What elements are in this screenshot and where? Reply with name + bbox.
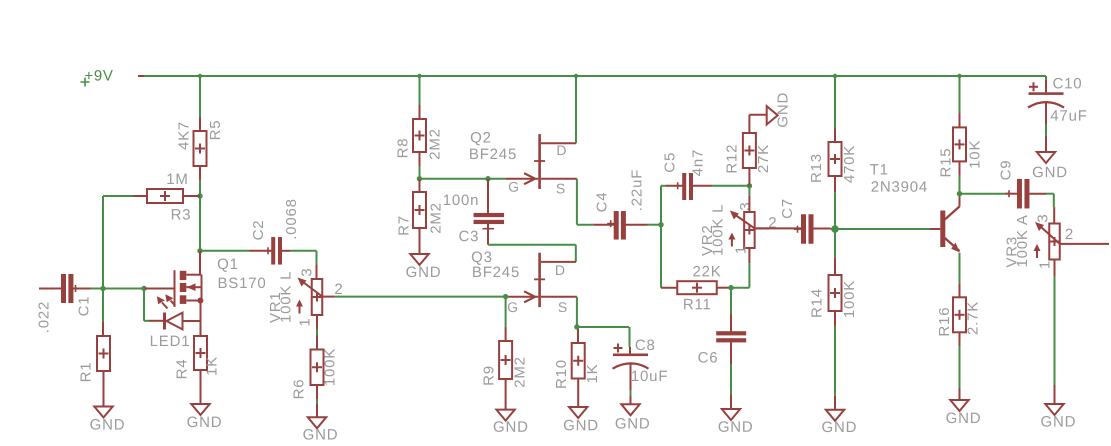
svg-text:1: 1 — [1037, 260, 1054, 269]
svg-text:100K: 100K — [841, 280, 858, 318]
svg-text:R14: R14 — [809, 288, 826, 318]
svg-text:C7: C7 — [779, 198, 796, 219]
svg-text:T1: T1 — [870, 161, 889, 178]
svg-text:GND: GND — [775, 92, 792, 128]
svg-text:10K: 10K — [967, 140, 984, 169]
svg-text:470K: 470K — [841, 145, 858, 183]
svg-text:R5: R5 — [207, 120, 224, 141]
svg-text:3: 3 — [299, 267, 316, 276]
svg-text:2M2: 2M2 — [427, 128, 444, 160]
svg-text:Q1: Q1 — [217, 256, 239, 273]
svg-text:GND: GND — [1032, 164, 1068, 181]
svg-text:S: S — [558, 299, 568, 315]
svg-text:GND: GND — [615, 415, 651, 432]
svg-text:3: 3 — [1034, 213, 1051, 222]
svg-text:2.7K: 2.7K — [964, 301, 981, 335]
svg-text:100K A: 100K A — [1014, 214, 1031, 267]
svg-text:GND: GND — [90, 416, 126, 433]
svg-text:GND: GND — [493, 419, 529, 436]
svg-text:GND: GND — [946, 410, 982, 427]
svg-text:S: S — [556, 180, 566, 196]
svg-text:10uF: 10uF — [631, 368, 668, 385]
svg-text:D: D — [556, 142, 567, 158]
svg-text:4K7: 4K7 — [176, 121, 193, 150]
svg-text:GND: GND — [1041, 413, 1077, 430]
svg-text:47uF: 47uF — [1050, 108, 1087, 125]
svg-text:BS170: BS170 — [217, 275, 266, 292]
svg-text:1K: 1K — [584, 364, 601, 384]
svg-text:R10: R10 — [553, 359, 570, 389]
svg-text:GND: GND — [187, 414, 223, 431]
svg-text:2M2: 2M2 — [512, 356, 529, 388]
svg-text:R16: R16 — [936, 307, 953, 337]
svg-text:2N3904: 2N3904 — [871, 179, 928, 196]
svg-text:.022: .022 — [36, 301, 53, 333]
svg-text:R7: R7 — [396, 215, 413, 236]
svg-text:D: D — [555, 262, 566, 278]
svg-text:GND: GND — [563, 417, 599, 434]
svg-text:GND: GND — [718, 419, 754, 436]
svg-text:27K: 27K — [755, 144, 772, 173]
svg-text:100n: 100n — [443, 192, 480, 209]
svg-text:LED1: LED1 — [150, 333, 191, 350]
svg-text:GND: GND — [303, 426, 339, 443]
svg-text:C9: C9 — [998, 160, 1015, 181]
svg-text:100K L: 100K L — [710, 204, 727, 256]
svg-text:C4: C4 — [594, 192, 611, 213]
svg-text:1: 1 — [732, 245, 749, 254]
svg-text:R15: R15 — [938, 148, 955, 178]
svg-text:R9: R9 — [481, 365, 498, 386]
svg-text:C8: C8 — [635, 337, 656, 354]
svg-text:2: 2 — [1065, 226, 1074, 243]
svg-text:1M: 1M — [166, 171, 188, 188]
svg-text:.0068: .0068 — [283, 198, 300, 240]
svg-text:C2: C2 — [250, 220, 267, 241]
svg-text:GND: GND — [406, 264, 442, 281]
svg-text:1: 1 — [297, 317, 314, 326]
svg-text:G: G — [507, 299, 519, 315]
svg-text:C5: C5 — [662, 152, 679, 173]
svg-text:R4: R4 — [174, 359, 191, 380]
svg-text:R3: R3 — [171, 206, 192, 223]
svg-text:C10: C10 — [1053, 75, 1083, 92]
svg-text:100K L: 100K L — [278, 271, 295, 323]
svg-text:100K: 100K — [322, 348, 339, 386]
svg-text:GND: GND — [822, 419, 858, 436]
svg-text:C3: C3 — [459, 228, 480, 245]
svg-text:22K: 22K — [692, 263, 721, 280]
svg-text:C6: C6 — [698, 349, 719, 366]
svg-text:Q2: Q2 — [470, 129, 492, 146]
svg-text:.22uF: .22uF — [629, 169, 646, 211]
svg-text:R12: R12 — [724, 144, 741, 174]
svg-text:4n7: 4n7 — [690, 149, 707, 176]
svg-text:1K: 1K — [204, 356, 221, 376]
svg-text:R8: R8 — [395, 138, 412, 159]
svg-text:R1: R1 — [78, 362, 95, 383]
svg-text:C1: C1 — [76, 296, 93, 317]
svg-text:R11: R11 — [683, 296, 712, 313]
svg-text:R6: R6 — [291, 379, 308, 400]
svg-text:G: G — [508, 179, 520, 195]
svg-text:R13: R13 — [808, 153, 825, 183]
svg-text:3: 3 — [737, 201, 754, 210]
svg-text:BF245: BF245 — [472, 264, 520, 281]
svg-text:2: 2 — [334, 281, 343, 298]
svg-text:BF245: BF245 — [469, 146, 517, 163]
